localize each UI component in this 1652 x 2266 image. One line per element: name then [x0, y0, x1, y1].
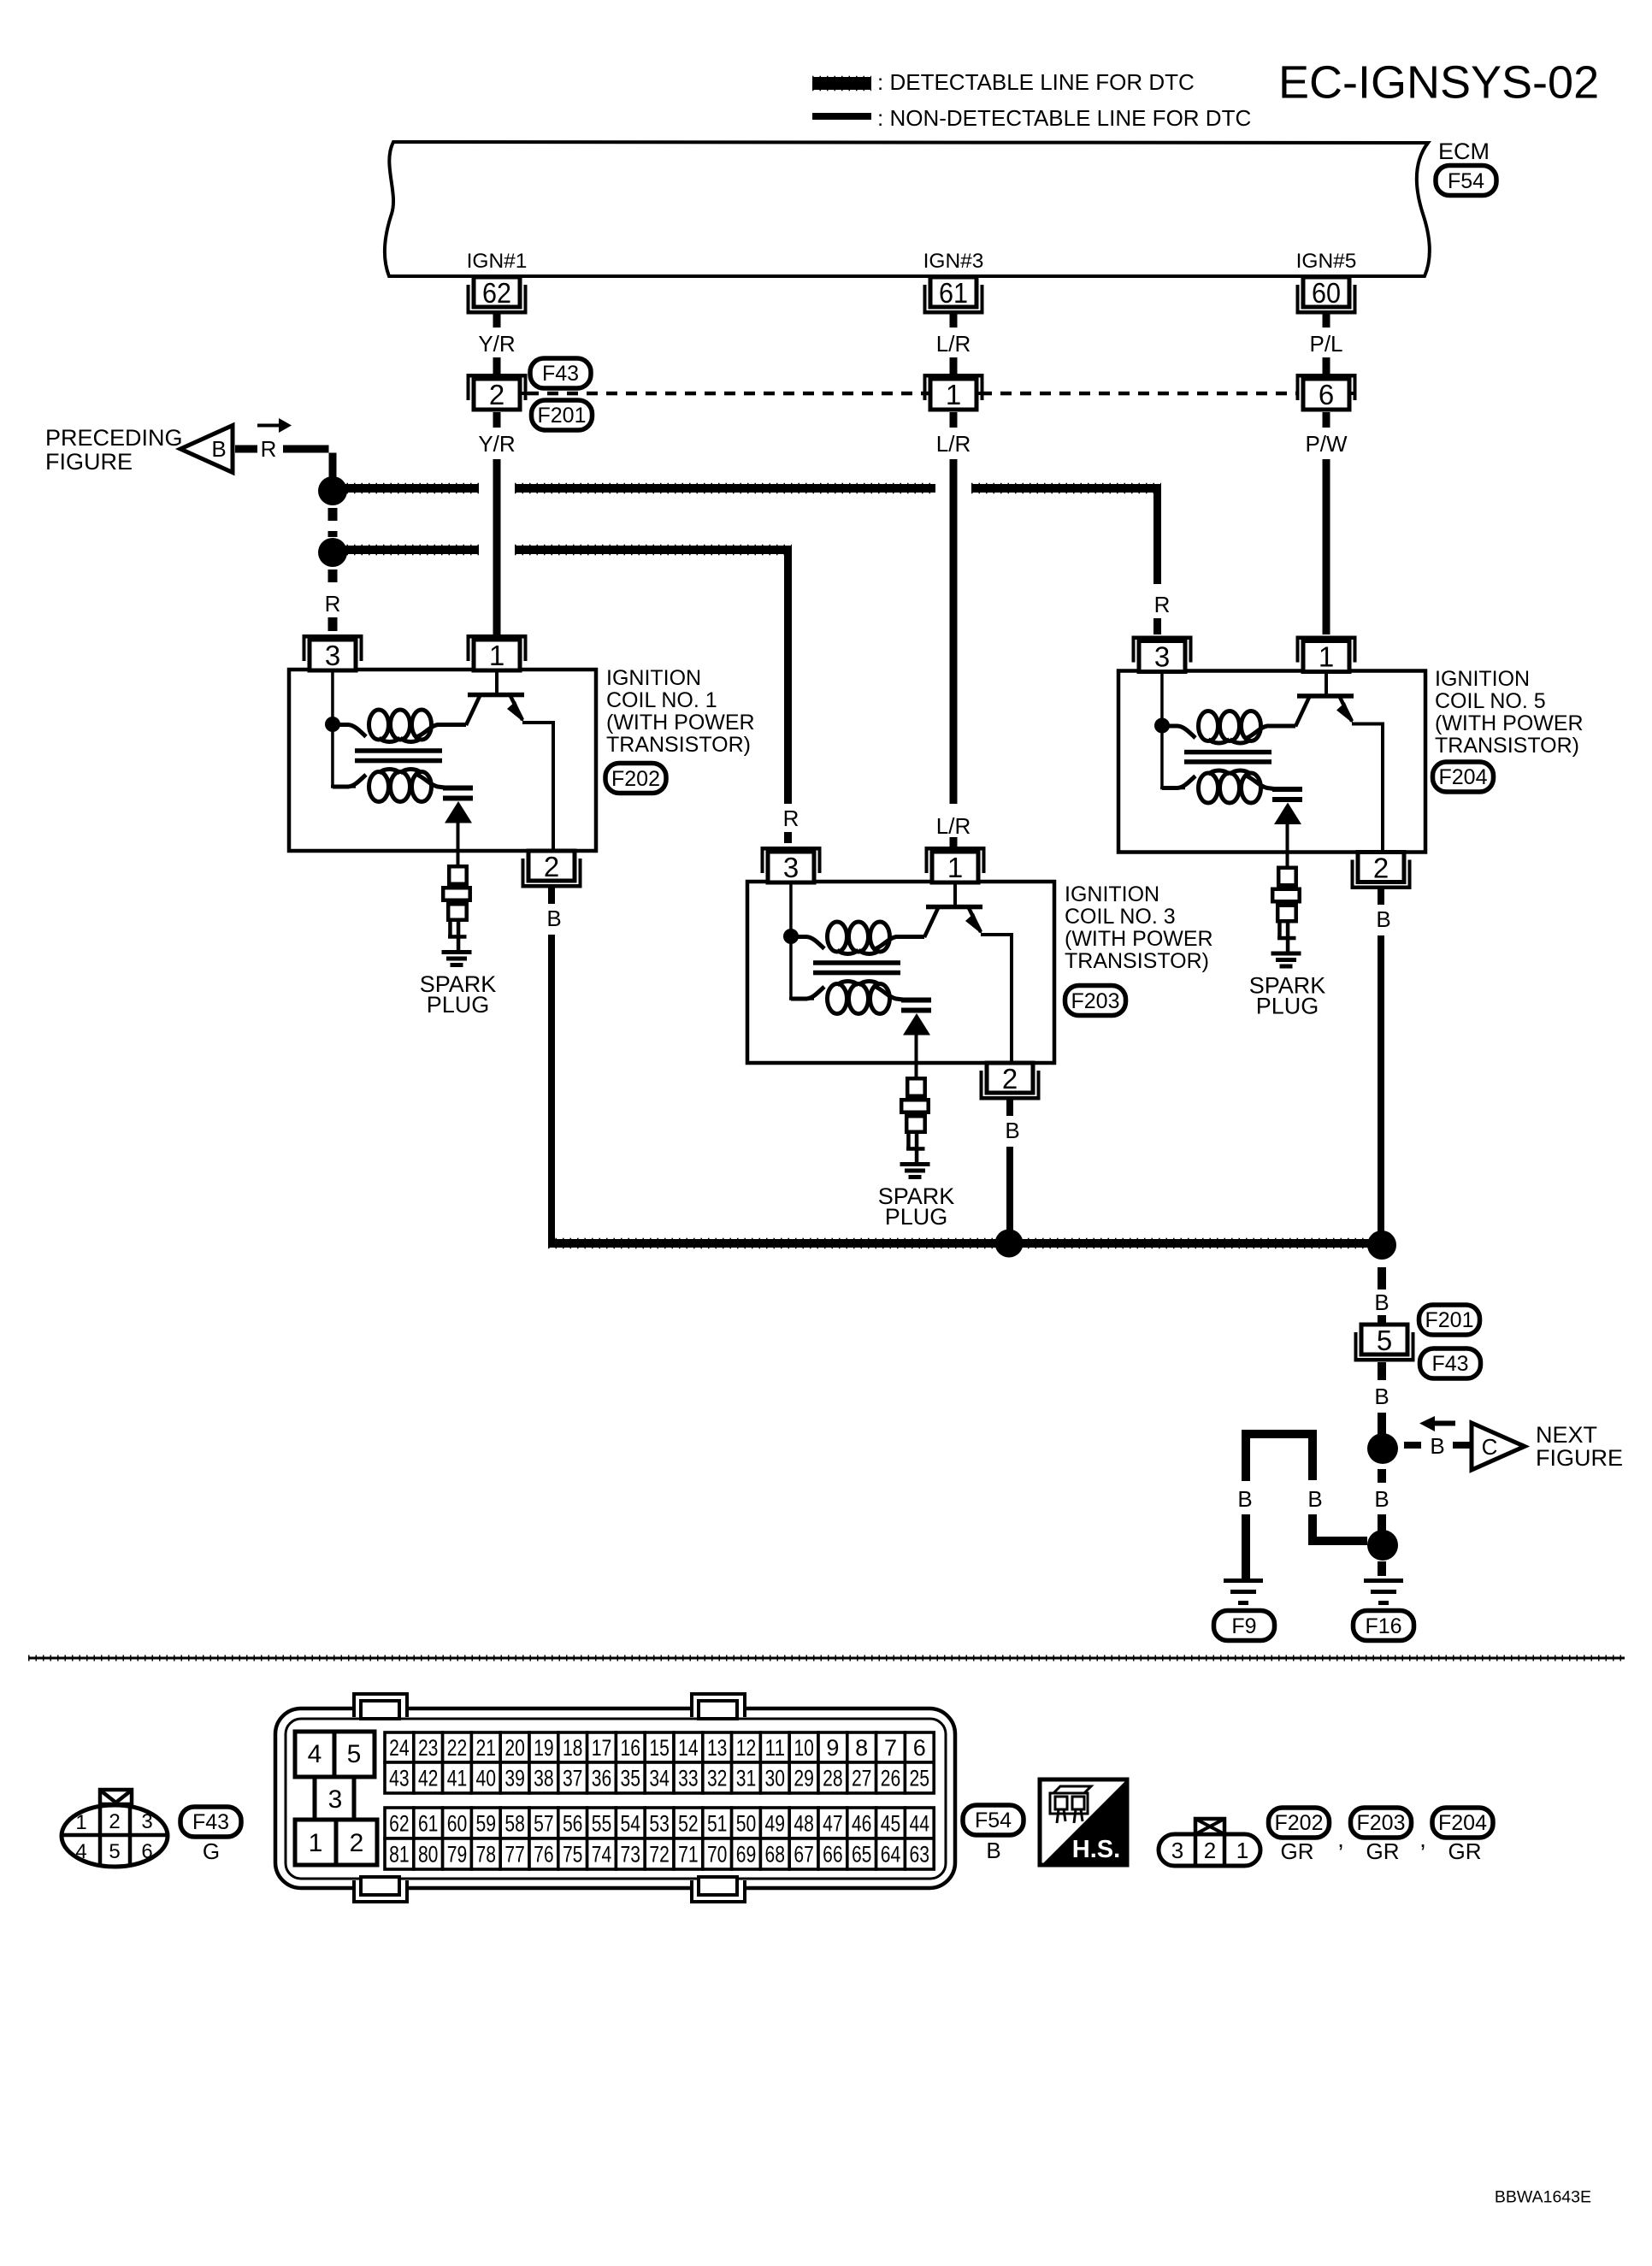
svg-text:5: 5 — [347, 1740, 362, 1768]
svg-text:6: 6 — [141, 1840, 152, 1863]
svg-text:36: 36 — [592, 1766, 612, 1791]
svg-text:17: 17 — [592, 1735, 612, 1761]
svg-text:12: 12 — [736, 1735, 757, 1761]
coil3 core — [813, 960, 900, 965]
svg-text:73: 73 — [621, 1842, 641, 1868]
svg-text:EC-IGNSYS-02: EC-IGNSYS-02 — [1278, 57, 1599, 109]
svg-text:67: 67 — [794, 1842, 814, 1868]
svg-text:80: 80 — [418, 1842, 439, 1868]
svg-text:66: 66 — [823, 1842, 843, 1868]
coil3 junction dot — [783, 929, 799, 944]
svg-text:COIL NO. 1: COIL NO. 1 — [606, 688, 717, 712]
svg-text:26: 26 — [881, 1766, 901, 1791]
svg-text:PLUG: PLUG — [427, 992, 490, 1018]
dash to ground F16 — [1378, 1561, 1386, 1576]
svg-text:TRANSISTOR): TRANSISTOR) — [1435, 734, 1579, 758]
inline connector 6 (F43/F201) — [1296, 374, 1357, 410]
svg-text:F43: F43 — [192, 1810, 229, 1834]
wire stub below pin 60 — [1323, 314, 1330, 328]
coil5 core — [1184, 750, 1271, 755]
connector oval F201 — [532, 400, 593, 430]
dashed B to lower junction — [1378, 1514, 1386, 1531]
ignition coil no.1 box — [289, 670, 596, 851]
svg-text:11: 11 — [765, 1735, 786, 1761]
svg-text:35: 35 — [621, 1766, 641, 1791]
coil3 primary winding — [798, 937, 824, 949]
svg-text:37: 37 — [563, 1766, 583, 1791]
svg-text:F202: F202 — [611, 767, 660, 791]
svg-text:IGNITION: IGNITION — [1435, 667, 1530, 691]
svg-text:F203: F203 — [1071, 989, 1120, 1013]
svg-text:1: 1 — [947, 852, 963, 883]
svg-text:56: 56 — [563, 1811, 583, 1837]
wire stub below pin 61 — [950, 314, 958, 328]
svg-text:F9: F9 — [1231, 1614, 1256, 1638]
ECM box — [385, 142, 1430, 276]
svg-text:L/R: L/R — [936, 431, 971, 457]
coil1 junction dot — [325, 717, 340, 732]
svg-text:40: 40 — [476, 1766, 497, 1791]
svg-text:: DETECTABLE LINE FOR DTC: : DETECTABLE LINE FOR DTC — [877, 69, 1195, 95]
svg-text:44: 44 — [910, 1811, 930, 1837]
svg-text:28: 28 — [823, 1766, 843, 1791]
svg-text:19: 19 — [534, 1735, 554, 1761]
inline connector 2 (F43/F201) — [467, 374, 528, 410]
coil5 pin 1 connector — [1296, 636, 1357, 672]
svg-text:BBWA1643E: BBWA1643E — [1495, 2188, 1591, 2207]
svg-text:B: B — [1374, 1289, 1389, 1315]
svg-text:4: 4 — [75, 1840, 86, 1863]
coil5 secondary winding — [1162, 776, 1195, 788]
ECM pin 60 — [1296, 277, 1357, 315]
coil3 emitter wire to pin 2 — [981, 935, 1012, 1063]
svg-text:75: 75 — [563, 1842, 583, 1868]
svg-text:42: 42 — [418, 1766, 439, 1791]
coil5 pin 2 connector — [1351, 853, 1412, 890]
svg-text:B: B — [1307, 1486, 1322, 1512]
coil5 spark plug ground — [1271, 952, 1301, 969]
coil1 spark plug ground — [442, 950, 472, 967]
coil5 HT terminal bars — [1272, 787, 1302, 792]
stub above connector 5 — [1378, 1315, 1386, 1325]
B bus horizontal — [548, 1238, 1382, 1249]
svg-text:30: 30 — [765, 1766, 786, 1791]
svg-text:59: 59 — [476, 1811, 497, 1837]
ground symbol F16 — [1364, 1579, 1403, 1605]
coil1 pin 1 connector — [467, 634, 528, 670]
svg-text:5: 5 — [1377, 1325, 1392, 1356]
svg-text:1: 1 — [946, 379, 961, 410]
wire B stub below coil5 pin2 — [1378, 888, 1384, 905]
coil1 wire pin3 to primary — [331, 670, 334, 719]
dashed joint line between connectors 2-1-6 — [520, 392, 530, 395]
coil5 emitter wire to pin 2 — [1352, 724, 1383, 853]
coil3 HT stem to spark plug — [915, 1035, 918, 1077]
svg-text:F54: F54 — [975, 1809, 1012, 1832]
ignition coil no.3 box — [747, 882, 1054, 1063]
svg-text:3: 3 — [141, 1810, 152, 1833]
svg-text:18: 18 — [563, 1735, 583, 1761]
svg-text:6: 6 — [1319, 379, 1334, 410]
svg-text:GR: GR — [1448, 1838, 1482, 1864]
wire Y/R main (to coil1 pin1) — [493, 459, 501, 634]
svg-text:2: 2 — [1002, 1063, 1018, 1095]
coil5 junction dot — [1154, 718, 1170, 734]
coil5 primary winding — [1169, 726, 1195, 738]
coil3 wire pin3 to primary — [789, 882, 793, 931]
F43 6-pin oval connector — [62, 1805, 168, 1867]
legend non-detectable line sample — [812, 113, 871, 120]
svg-text:NEXT: NEXT — [1536, 1422, 1597, 1448]
svg-text:79: 79 — [447, 1842, 468, 1868]
svg-text:2: 2 — [1204, 1838, 1216, 1863]
coil5 HT arrow — [1274, 803, 1301, 825]
dashed B below bus — [1378, 1267, 1386, 1289]
coil5 F204 oval — [1433, 762, 1494, 792]
svg-text:B: B — [1374, 1384, 1389, 1409]
svg-text:IGN#5: IGN#5 — [1296, 250, 1357, 273]
svg-text:L/R: L/R — [936, 331, 971, 357]
separator line — [28, 1655, 1625, 1661]
oval F43 at connector 5 — [1420, 1348, 1481, 1378]
svg-text:,: , — [1337, 1826, 1344, 1852]
svg-text:51: 51 — [707, 1811, 728, 1837]
svg-text:1: 1 — [75, 1811, 86, 1834]
svg-text:52: 52 — [678, 1811, 699, 1837]
coil5 spark plug — [1278, 868, 1296, 886]
svg-text:Y/R: Y/R — [478, 431, 515, 457]
svg-text:IGN#3: IGN#3 — [923, 250, 984, 273]
coil3 spark plug — [907, 1078, 925, 1096]
coil5 pin 3 connector — [1132, 636, 1193, 672]
ignition coil no.5 box — [1118, 671, 1425, 853]
ECM pin 62 — [467, 277, 528, 315]
svg-text:21: 21 — [476, 1735, 497, 1761]
wire Y/R above connector 2 — [493, 357, 501, 374]
svg-text:R: R — [325, 591, 341, 617]
svg-text:COIL NO. 5: COIL NO. 5 — [1435, 689, 1546, 713]
svg-text:L/R: L/R — [936, 813, 971, 839]
svg-text:78: 78 — [476, 1842, 497, 1868]
coil3 pin 3 connector — [761, 847, 822, 882]
svg-text:38: 38 — [534, 1766, 554, 1791]
coil1 HT stem to spark plug — [457, 823, 460, 865]
wire stub below pin 62 — [493, 314, 501, 328]
svg-text:74: 74 — [592, 1842, 612, 1868]
svg-text:14: 14 — [678, 1735, 699, 1761]
svg-text:B: B — [1430, 1433, 1444, 1459]
svg-text:Y/R: Y/R — [478, 331, 515, 357]
svg-text:F54: F54 — [1448, 169, 1484, 193]
ovals F202 F203 F204 with GR — [1269, 1808, 1330, 1838]
svg-text:GR: GR — [1366, 1838, 1400, 1864]
detectable line row2 (to coil3 pin3) — [339, 545, 479, 556]
label F54 B — [963, 1805, 1024, 1835]
svg-text:1: 1 — [309, 1829, 323, 1857]
svg-text:64: 64 — [881, 1842, 901, 1868]
svg-text:3: 3 — [783, 852, 799, 883]
svg-text:22: 22 — [447, 1735, 468, 1761]
svg-text:B: B — [986, 1838, 1000, 1863]
coil5 wire pin3 to primary — [1160, 671, 1164, 721]
svg-text:29: 29 — [794, 1766, 814, 1791]
svg-text:65: 65 — [852, 1842, 872, 1868]
coil3 left vertical wire — [789, 941, 793, 999]
svg-text:F43: F43 — [1431, 1352, 1468, 1376]
svg-text:B: B — [1376, 906, 1390, 932]
coil5 HT stem to spark plug — [1286, 824, 1289, 866]
svg-text:43: 43 — [389, 1766, 410, 1791]
svg-text:2: 2 — [544, 851, 559, 882]
ground bridge top bar — [1242, 1430, 1317, 1481]
connector 5 (F201/F43) — [1354, 1325, 1415, 1362]
coil1 left vertical wire — [331, 729, 334, 787]
ECM F54 connector oval — [1436, 166, 1496, 196]
svg-text:16: 16 — [621, 1735, 641, 1761]
svg-text:77: 77 — [504, 1842, 525, 1868]
oval F9 — [1214, 1611, 1275, 1641]
coil5 left vertical wire — [1160, 730, 1164, 788]
svg-text:33: 33 — [678, 1766, 699, 1791]
svg-text:46: 46 — [852, 1811, 872, 1837]
svg-text:2: 2 — [109, 1810, 120, 1833]
oval F201 at connector 5 — [1419, 1305, 1480, 1335]
svg-text:ECM: ECM — [1438, 139, 1490, 164]
wire B coil3 down to bus — [1006, 1147, 1013, 1243]
svg-text:C: C — [1482, 1434, 1498, 1460]
svg-text:F201: F201 — [538, 404, 587, 428]
dash below junction — [1378, 1469, 1386, 1483]
svg-text:32: 32 — [707, 1766, 728, 1791]
wire B stub below coil3 pin2 — [1006, 1100, 1013, 1116]
svg-text:63: 63 — [910, 1842, 930, 1868]
svg-text:IGNITION: IGNITION — [606, 666, 701, 690]
svg-text:60: 60 — [1312, 277, 1341, 309]
legend detectable line sample — [812, 76, 871, 91]
svg-text:3: 3 — [325, 640, 340, 671]
wire R above coil5 pin3 — [1153, 618, 1161, 634]
triangle C (to next figure) — [1472, 1423, 1525, 1470]
svg-text:55: 55 — [592, 1811, 612, 1837]
wire stub from triangle B — [235, 446, 257, 453]
inline connector 1 (F43/F201) — [923, 374, 984, 410]
svg-text:50: 50 — [736, 1811, 757, 1837]
svg-text:71: 71 — [678, 1842, 699, 1868]
ECM connector mounting tabs — [354, 1694, 407, 1717]
svg-text:9: 9 — [826, 1735, 839, 1761]
row2 corner down leg x=921 — [784, 546, 792, 804]
svg-text:8: 8 — [855, 1735, 868, 1761]
row1 corner down leg x=1353 — [1153, 484, 1161, 584]
svg-text:6: 6 — [913, 1735, 926, 1761]
svg-text:1: 1 — [489, 640, 504, 671]
svg-text:F203: F203 — [1357, 1811, 1406, 1835]
svg-text:COIL NO. 3: COIL NO. 3 — [1065, 905, 1176, 929]
svg-text:2: 2 — [489, 379, 504, 410]
wire P/W main (to coil5 pin1) — [1323, 459, 1330, 634]
svg-text:76: 76 — [534, 1842, 554, 1868]
junction node row2 — [318, 538, 347, 567]
ECM connector pin grid — [385, 1732, 414, 1762]
svg-text:TRANSISTOR): TRANSISTOR) — [606, 733, 751, 757]
svg-text:5: 5 — [109, 1840, 120, 1863]
svg-text:F16: F16 — [1365, 1614, 1401, 1638]
wire L/R main (to coil3 pin1) — [950, 459, 958, 804]
svg-text:61: 61 — [939, 277, 968, 309]
svg-text:P/W: P/W — [1305, 431, 1348, 457]
3-pin connector 3-2-1 — [1159, 1834, 1260, 1866]
coil3 HT terminal bars — [901, 998, 931, 1003]
svg-text:B: B — [546, 906, 561, 931]
svg-text:20: 20 — [504, 1735, 525, 1761]
svg-text:R: R — [783, 805, 799, 831]
svg-text:F204: F204 — [1438, 1811, 1487, 1835]
svg-text:70: 70 — [707, 1842, 728, 1868]
svg-text:23: 23 — [418, 1735, 439, 1761]
coil3 secondary winding — [791, 987, 824, 999]
svg-text:3: 3 — [328, 1785, 343, 1814]
coil1 pin 2 connector — [522, 851, 582, 888]
coil1 HT arrow — [445, 801, 472, 823]
dash right of junction — [1404, 1442, 1421, 1449]
svg-text:68: 68 — [765, 1842, 786, 1868]
svg-text:7: 7 — [884, 1735, 897, 1761]
dashed R above coil1 pin3 — [328, 617, 338, 631]
H.S. logo — [1040, 1779, 1127, 1865]
svg-text:B: B — [1005, 1118, 1019, 1143]
svg-text:1: 1 — [1319, 641, 1334, 673]
arrow left (direction) — [1433, 1421, 1455, 1426]
coil1 secondary winding — [333, 775, 366, 787]
svg-text:FIGURE: FIGURE — [45, 449, 133, 475]
svg-text:FIGURE: FIGURE — [1536, 1445, 1623, 1471]
wire P/L above connector 6 — [1323, 357, 1330, 374]
svg-text:49: 49 — [765, 1811, 786, 1837]
svg-text:27: 27 — [852, 1766, 872, 1791]
svg-text:60: 60 — [447, 1811, 468, 1837]
coil1 pin 3 connector — [303, 634, 363, 670]
detectable line row1 (to coil5 pin3) — [339, 483, 479, 494]
svg-text:(WITH POWER: (WITH POWER — [606, 711, 755, 735]
bridge left leg lower — [1242, 1514, 1250, 1579]
svg-text:3: 3 — [1154, 641, 1170, 673]
junction dot ground — [1367, 1530, 1398, 1561]
svg-text:15: 15 — [649, 1735, 670, 1761]
oval F16 — [1354, 1611, 1414, 1641]
svg-text:81: 81 — [389, 1842, 410, 1868]
connector oval F43 — [530, 358, 591, 388]
svg-text:61: 61 — [418, 1811, 439, 1837]
svg-text:72: 72 — [649, 1842, 670, 1868]
coil1 core — [355, 748, 442, 753]
triangle B (from preceding figure) — [180, 426, 233, 473]
svg-text:GR: GR — [1281, 1838, 1314, 1864]
svg-text:PLUG: PLUG — [1256, 994, 1319, 1019]
junction node row1 — [318, 476, 347, 505]
svg-text:2: 2 — [1373, 853, 1389, 884]
svg-text:F204: F204 — [1439, 765, 1488, 789]
stub below connector 5 — [1378, 1362, 1386, 1380]
coil1 emitter wire to pin 2 — [522, 723, 553, 851]
wire B stub below coil1 pin2 — [548, 888, 555, 904]
coil1 power transistor — [495, 670, 499, 694]
svg-text:47: 47 — [823, 1811, 843, 1837]
svg-text:41: 41 — [447, 1766, 468, 1791]
svg-text:H.S.: H.S. — [1072, 1836, 1120, 1863]
svg-text:P/L: P/L — [1309, 331, 1342, 357]
svg-text:2: 2 — [350, 1829, 364, 1857]
coil1 primary winding — [339, 725, 366, 737]
wire B coil5 down to bus — [1378, 935, 1384, 1239]
svg-text:48: 48 — [794, 1811, 814, 1837]
svg-text:F43: F43 — [542, 362, 579, 386]
svg-text:PLUG: PLUG — [885, 1204, 948, 1230]
svg-text:69: 69 — [736, 1842, 757, 1868]
dashed R between junction nodes — [328, 508, 338, 521]
svg-text:54: 54 — [621, 1811, 641, 1837]
svg-text:,: , — [1419, 1826, 1426, 1852]
junction dot next-figure — [1367, 1433, 1398, 1464]
ground symbol F9 — [1224, 1579, 1263, 1605]
svg-text:F201: F201 — [1425, 1308, 1474, 1332]
coil3 power transistor — [953, 882, 957, 906]
svg-text:IGNITION: IGNITION — [1065, 882, 1159, 906]
coil3 F203 oval — [1065, 986, 1126, 1016]
coil5 power transistor — [1325, 671, 1328, 696]
dashed R below junction node 2 — [328, 569, 338, 582]
svg-text:R: R — [261, 436, 277, 462]
svg-text:57: 57 — [534, 1811, 554, 1837]
svg-text:3: 3 — [1171, 1838, 1183, 1863]
coil3 HT arrow — [903, 1013, 930, 1036]
svg-text:B: B — [1237, 1486, 1252, 1512]
junction dot B bus right end — [1367, 1230, 1396, 1260]
bridge right leg lower + corner to dot — [1308, 1514, 1367, 1545]
svg-text:62: 62 — [389, 1811, 410, 1837]
wire R to junction — [283, 446, 337, 480]
svg-text:TRANSISTOR): TRANSISTOR) — [1065, 949, 1209, 973]
svg-text:B: B — [1374, 1486, 1389, 1512]
svg-text:(WITH POWER: (WITH POWER — [1065, 927, 1213, 951]
svg-text:B: B — [211, 436, 226, 462]
svg-text:PRECEDING: PRECEDING — [45, 425, 183, 451]
svg-text:24: 24 — [389, 1735, 410, 1761]
wire B coil1 down to bus — [548, 935, 555, 1248]
svg-text:R: R — [1154, 592, 1171, 617]
junction dot B bus coil3 — [995, 1230, 1024, 1258]
ECM connector F54 housing — [275, 1708, 955, 1888]
coil1 F202 oval — [605, 764, 666, 794]
arrow right (direction) — [257, 424, 279, 428]
coil3 pin 2 connector — [980, 1063, 1041, 1101]
svg-text:: NON-DETECTABLE LINE FOR DTC: : NON-DETECTABLE LINE FOR DTC — [877, 105, 1251, 131]
svg-text:IGN#1: IGN#1 — [467, 250, 528, 273]
dash before triangle C — [1453, 1442, 1472, 1449]
ECM connector left cells 4 5 3 1 2 — [295, 1732, 334, 1777]
svg-text:G: G — [203, 1838, 220, 1864]
svg-text:62: 62 — [482, 277, 511, 309]
wire R above coil3 pin3 — [784, 832, 792, 843]
svg-text:39: 39 — [504, 1766, 525, 1791]
ECM pin 61 — [923, 277, 984, 315]
svg-text:10: 10 — [794, 1735, 814, 1761]
svg-text:1: 1 — [1236, 1838, 1248, 1863]
svg-text:58: 58 — [504, 1811, 525, 1837]
coil3 pin 1 connector — [925, 847, 986, 882]
coil1 spark plug — [449, 866, 467, 884]
svg-text:53: 53 — [649, 1811, 670, 1837]
coil1 HT terminal bars — [443, 786, 473, 791]
